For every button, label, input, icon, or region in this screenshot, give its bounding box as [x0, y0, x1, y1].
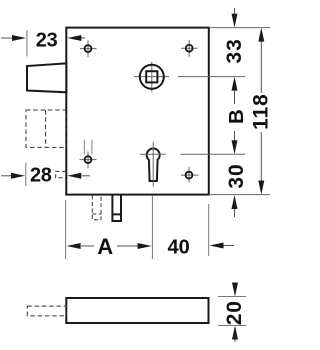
latch bolt [27, 63, 66, 92]
faceplate dashed tab [27, 306, 66, 316]
dim 28 left arrow [1, 173, 25, 179]
dim 20 label [223, 300, 246, 325]
dim 20 top arrow [232, 283, 238, 297]
dim 33 bottom arrow / dim B top arrow [232, 77, 238, 104]
svg-text:40: 40 [167, 237, 189, 259]
spindle follower circle [140, 65, 164, 89]
spindle square hole [146, 71, 157, 82]
lock case body [66, 28, 209, 195]
screw hole lower-right [186, 172, 193, 179]
dim 30 bottom arrow [232, 195, 238, 217]
keyhole slot [149, 160, 158, 181]
dim 40 right arrow [210, 243, 235, 249]
svg-text:118: 118 [250, 93, 271, 130]
screw hole upper-right crosshair [181, 47, 198, 49]
dim A left extension [65, 200, 67, 259]
dim A centre extension [151, 196, 153, 259]
dim 28 right arrow [67, 173, 90, 179]
follower pin tab (dashed position) [92, 196, 101, 220]
deadbolt divider (dashed) [45, 110, 47, 147]
svg-text:33: 33 [223, 38, 246, 63]
faceplate side view [66, 298, 208, 323]
follower pin tab (solid, below case) [112, 196, 121, 222]
dim 118 top arrow [258, 28, 264, 93]
dim 33 label [223, 38, 246, 63]
svg-text:B: B [225, 109, 248, 124]
dim B label [225, 109, 248, 124]
svg-text:20: 20 [223, 300, 246, 325]
svg-text:28: 28 [30, 165, 52, 187]
dim A left arrow [67, 243, 94, 249]
dim 23 left arrow [1, 35, 26, 41]
bottom edge extension line [209, 194, 270, 196]
keyhole circle [147, 149, 160, 162]
dim 20 bottom arrow [232, 326, 238, 343]
screw hole lower-left [85, 156, 92, 163]
dim A right arrow [117, 243, 152, 249]
screw hole upper-right [186, 45, 193, 52]
screw hole upper-left crosshair [80, 48, 97, 50]
screw hole upper-left [85, 45, 92, 52]
dim 30 label [225, 163, 248, 188]
dim 20 top extension [218, 296, 246, 298]
dim B bottom arrow / dim 30 top arrow [232, 131, 238, 154]
svg-text:A: A [97, 234, 113, 259]
screw hole lower-right crosshair [181, 174, 199, 176]
slot above lower-left screw hole [83, 140, 85, 155]
spindle follower crosshair [134, 76, 169, 78]
keyhole crosshair [140, 153, 166, 155]
dim 33 top arrow [232, 8, 238, 28]
screw hole lower-left crosshair [80, 159, 97, 161]
dim 28 tick [25, 163, 27, 187]
small dashed box at case edge [56, 171, 66, 177]
dim 40 right tick [208, 204, 210, 256]
dim 20 bottom extension [218, 325, 246, 327]
top edge extension line [209, 27, 270, 29]
svg-text:23: 23 [36, 29, 58, 51]
keyhole centre extension line [181, 153, 246, 155]
dim 23 tick [26, 30, 28, 56]
svg-text:30: 30 [225, 163, 248, 188]
dim 118 label [250, 93, 273, 130]
spindle centre extension line [178, 76, 245, 78]
dim 118 bottom arrow [258, 132, 264, 195]
dim 23 right arrow [67, 35, 85, 41]
deadbolt (dashed, retracted) [26, 110, 66, 147]
